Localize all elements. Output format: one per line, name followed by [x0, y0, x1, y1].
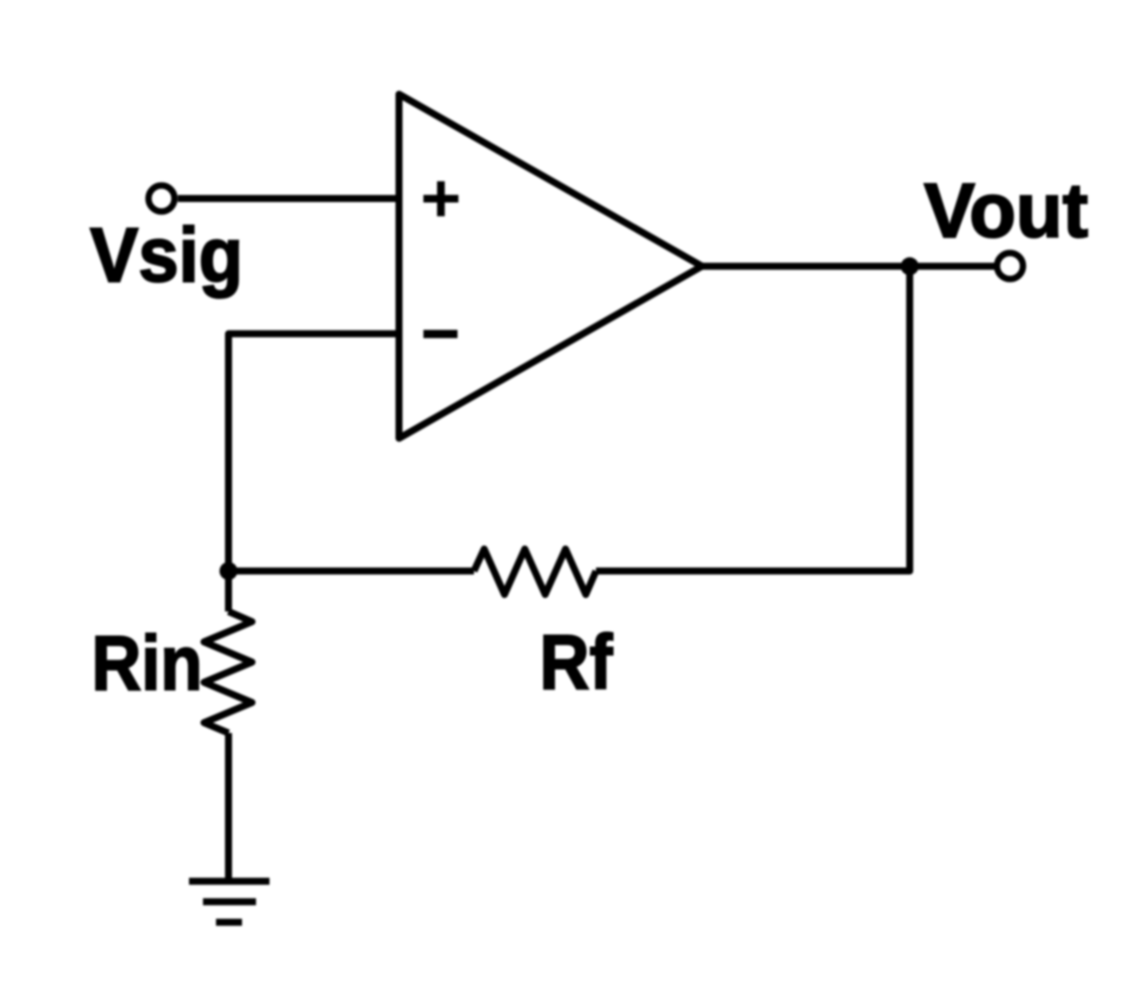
op-amp - input label: [423, 330, 457, 338]
svg-text:Rf: Rf: [540, 620, 613, 706]
wire feedback to - input: [229, 334, 400, 571]
op-amp U1: [399, 94, 702, 438]
svg-text:Rin: Rin: [92, 621, 203, 707]
wire Vsig to op-amp + input: [178, 195, 399, 202]
wire Rin to ground: [225, 733, 232, 878]
wire junction to Rin: [225, 571, 232, 612]
terminal Vsig: [149, 186, 175, 212]
wire op-amp output: [701, 263, 995, 270]
resistor Rin: [204, 612, 252, 734]
svg-text:Vout: Vout: [924, 168, 1088, 254]
resistor Rf: [474, 549, 596, 595]
ground: [189, 881, 270, 922]
svg-text:Vsig: Vsig: [90, 213, 243, 299]
wire output down to bottom rail: [596, 266, 910, 571]
terminal Vout: [997, 253, 1023, 279]
node output junction: [901, 257, 919, 275]
wire bottom left: [229, 568, 475, 575]
node feedback junction: [220, 562, 238, 580]
op-amp + input label: [423, 181, 458, 216]
